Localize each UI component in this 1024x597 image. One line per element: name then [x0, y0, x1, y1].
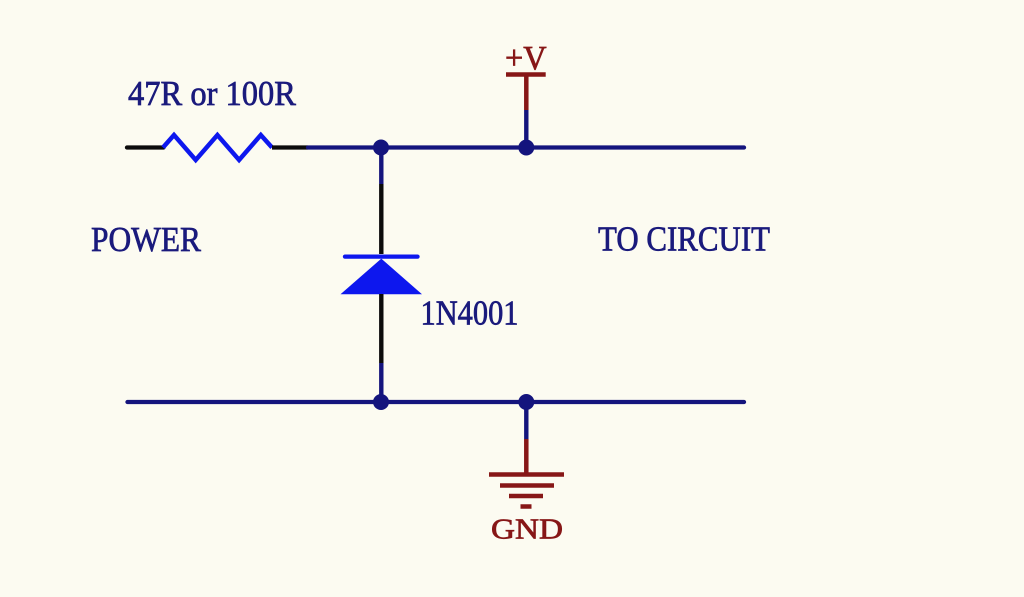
- wire: top rail (navy): [308, 145, 744, 149]
- ground: bar 3: [509, 494, 543, 499]
- ground: bar 1: [489, 472, 564, 477]
- svg-text:POWER: POWER: [91, 220, 202, 259]
- svg-text:1N4001: 1N4001: [421, 294, 519, 333]
- wire: black segment after resistor: [272, 145, 308, 149]
- ground: bar 4: [521, 504, 532, 509]
- junction dot: top rail / +V stem: [518, 140, 534, 156]
- wire: navy stem from +V to top rail: [524, 110, 528, 148]
- svg-text:GND: GND: [491, 514, 563, 545]
- svg-text:47R or 100R: 47R or 100R: [128, 74, 297, 113]
- wire: top-left lead (black) into resistor: [127, 145, 164, 149]
- svg-text:TO CIRCUIT: TO CIRCUIT: [598, 220, 770, 259]
- junction dot: top rail / diode branch: [373, 140, 389, 156]
- power symbol +V: maroon stem: [524, 75, 529, 111]
- diode D1 1N4001: anode triangle: [341, 259, 423, 295]
- wire: navy down to bottom rail: [379, 363, 383, 402]
- ground: maroon stem: [524, 439, 529, 474]
- wire: navy stem from bottom rail to ground: [524, 402, 528, 439]
- svg-text:+V: +V: [505, 40, 547, 77]
- wire: black below diode: [379, 294, 383, 363]
- resistor R (47R or 100R) zigzag: [163, 135, 272, 160]
- power symbol +V: bar: [506, 72, 546, 76]
- junction dot: bottom rail / ground stem: [518, 394, 534, 410]
- wire: bottom rail (navy): [128, 400, 745, 404]
- wire: navy below top junction: [379, 148, 383, 185]
- ground: bar 2: [500, 483, 554, 488]
- diode D1 1N4001: cathode bar: [345, 254, 418, 258]
- junction dot: bottom rail / diode branch: [373, 394, 389, 410]
- wire: black down to diode: [379, 184, 383, 254]
